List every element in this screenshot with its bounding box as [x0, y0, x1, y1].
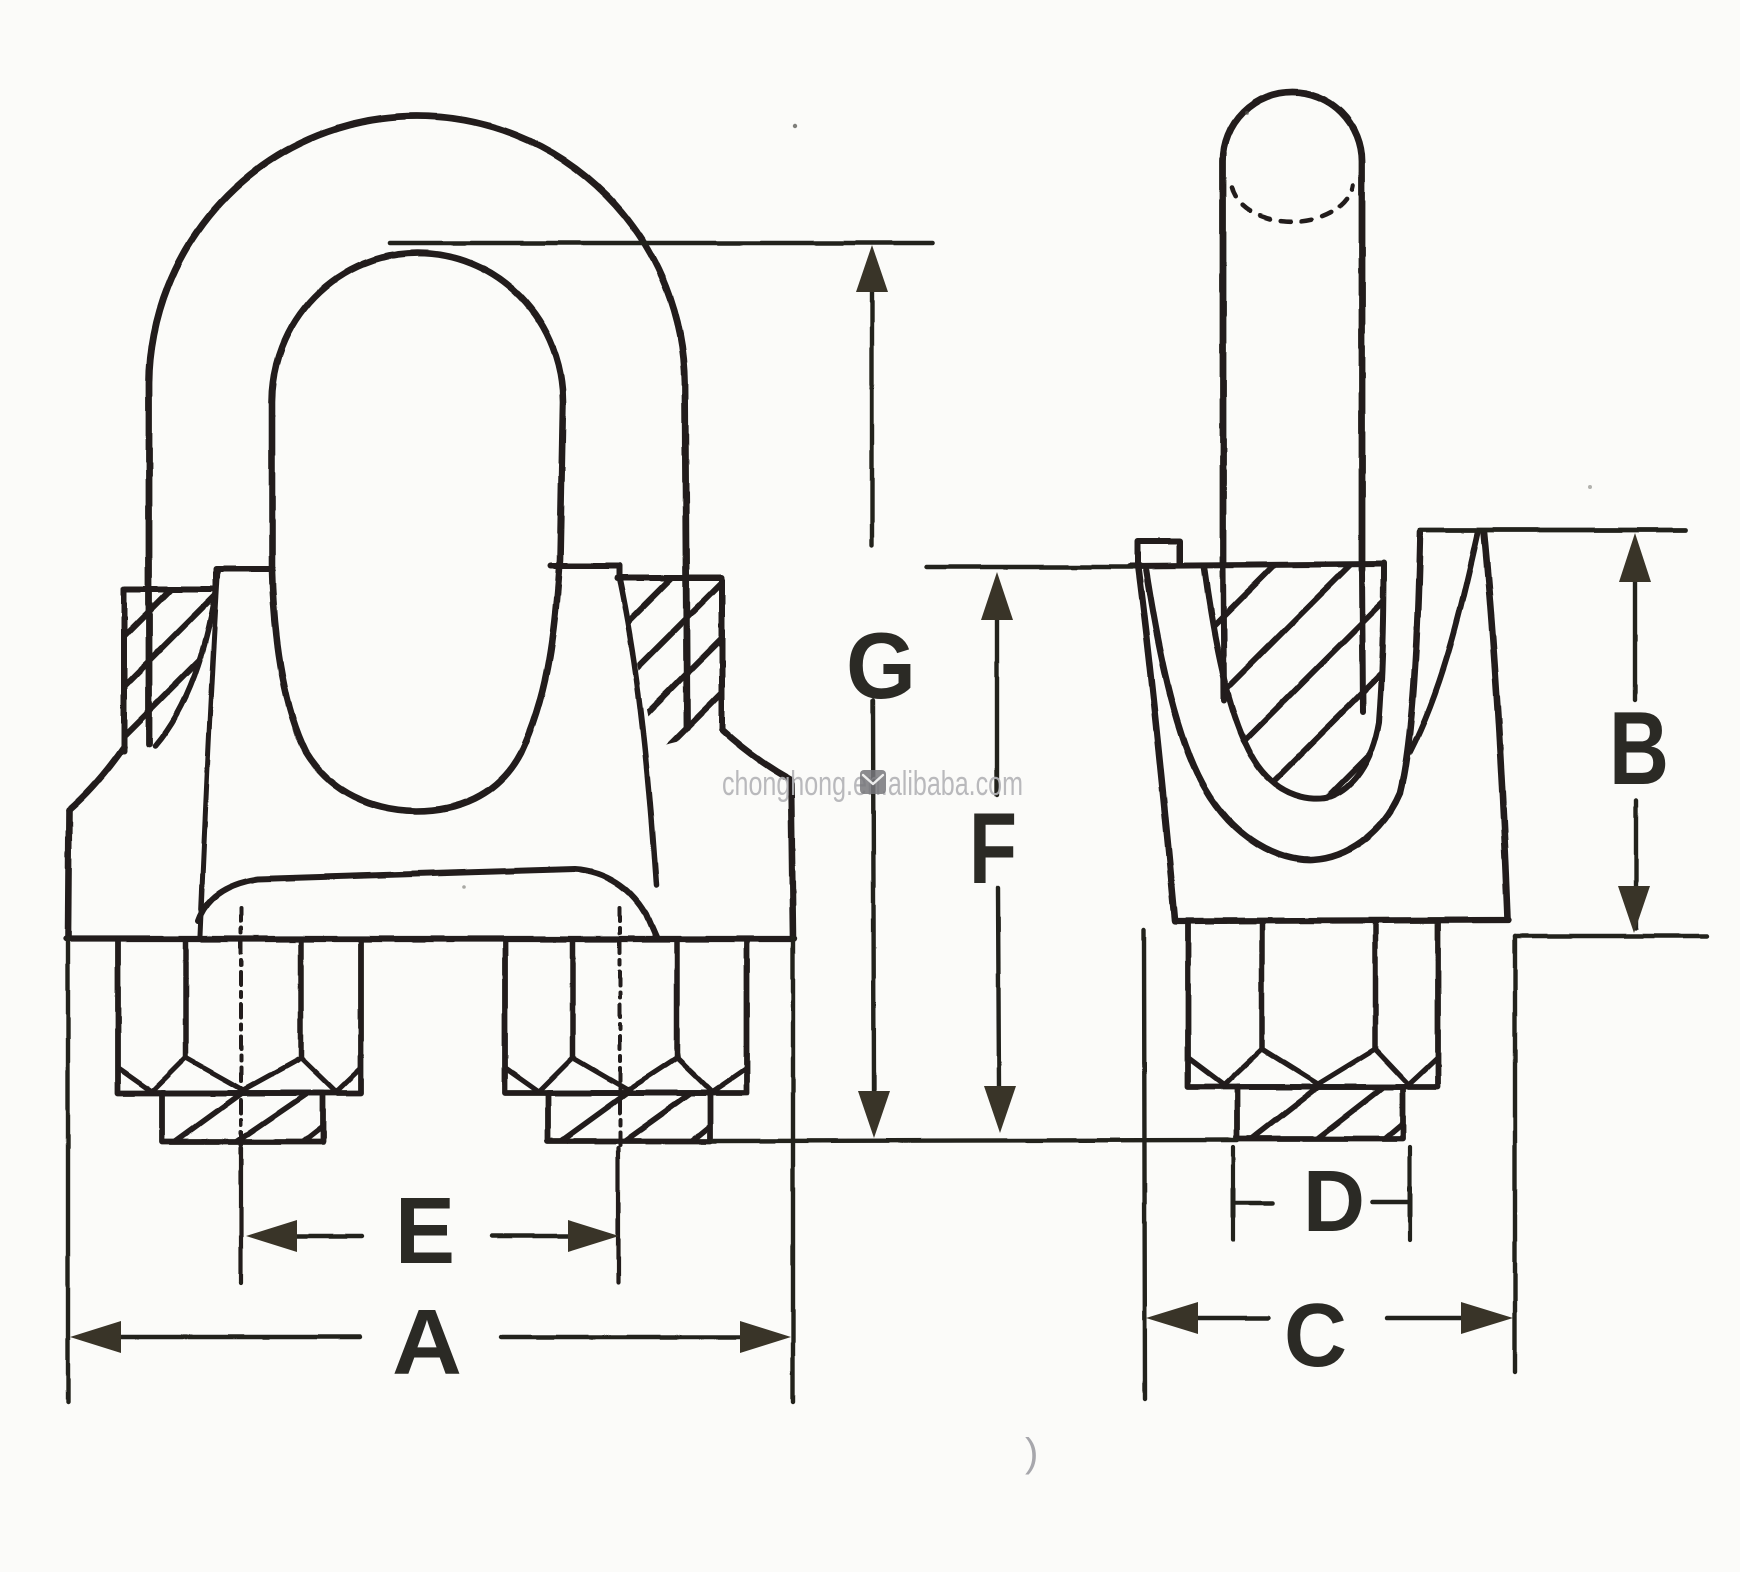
left nut chamfers: [118, 1058, 186, 1092]
arrowheads: [70, 245, 1651, 1353]
C arrows: [1146, 1302, 1198, 1334]
B dimension line: [1633, 581, 1637, 700]
left nut facets: [183, 941, 189, 1058]
B bottom extension line: [1515, 934, 1707, 938]
left body side: [68, 810, 69, 938]
side nut outline: [1188, 921, 1438, 1087]
E arrows: [246, 1220, 297, 1252]
left ear fillet curve: [155, 591, 216, 746]
bolt centerline left (dashed): [239, 908, 243, 1148]
right shoulder curve: [722, 730, 791, 780]
B top extension line: [1420, 528, 1686, 533]
channel hatch: [1180, 540, 1460, 845]
right nut facets: [570, 941, 576, 1058]
A extension lines: [66, 938, 70, 1402]
A dimension line: [118, 1335, 360, 1339]
right body side: [791, 780, 793, 938]
side nut chamfers: [1188, 1049, 1262, 1085]
saddle bottom: [1175, 920, 1509, 921]
U-bolt outer arch: [149, 116, 687, 744]
C right extension line: [1513, 936, 1517, 1372]
right washer: [548, 1093, 710, 1141]
E extension lines: [239, 1281, 243, 1285]
D extension lines: [1231, 1147, 1235, 1240]
back ear inner face line: [1410, 533, 1478, 752]
rod edges inside channel: [1223, 565, 1224, 700]
G arrows: [856, 245, 888, 292]
E dimension line: [295, 1234, 362, 1238]
left ear hatched box edges: [124, 589, 216, 751]
saddle top edge: [1130, 564, 1384, 566]
C left extension line: [1144, 930, 1145, 1399]
svg-text:G: G: [846, 613, 916, 718]
svg-text:C: C: [1284, 1286, 1347, 1386]
A arrows: [70, 1321, 121, 1353]
C dimension line: [1196, 1316, 1268, 1320]
right nut chamfers: [505, 1058, 573, 1092]
bottom extension line (G,F): [711, 1140, 1237, 1141]
svg-text:A: A: [392, 1290, 462, 1394]
svg-text:): ): [1025, 1431, 1038, 1475]
baseline: [66, 936, 794, 942]
F dimension line: [995, 618, 999, 795]
svg-text:B: B: [1609, 691, 1669, 807]
B arrows: [1619, 533, 1651, 582]
saddle right edge: [1484, 532, 1508, 919]
right tab: [551, 566, 619, 578]
right nut outline: [505, 940, 747, 1093]
right ear hatch lines: [510, 570, 780, 880]
watermark messenger icon: [860, 770, 886, 794]
bolt centerline right (dashed): [618, 908, 622, 1148]
right ear inner profile curve: [619, 578, 656, 886]
G dimension line: [870, 289, 874, 545]
G top extension line: [390, 241, 933, 246]
side nut facets: [1259, 922, 1265, 1049]
D dimension line with ticks: [1233, 1201, 1272, 1206]
left nut outline: [118, 940, 361, 1093]
steep inner profile line (left): [200, 569, 218, 936]
svg-text:E: E: [395, 1178, 455, 1284]
hidden circle dashed arc: [1232, 185, 1353, 222]
left tab: [216, 569, 273, 592]
left tab: [1138, 541, 1180, 566]
F arrows: [981, 572, 1013, 620]
saddle left edge: [1138, 568, 1175, 920]
left ear hatch lines: [20, 570, 280, 875]
svg-text:D: D: [1303, 1153, 1365, 1250]
left washer: [162, 1093, 323, 1142]
side washer: [1237, 1087, 1403, 1139]
left shoulder curve: [69, 747, 124, 810]
inner U channel: [1204, 563, 1384, 799]
faint specks: [793, 124, 797, 128]
bottom arc of saddle face: [198, 869, 656, 937]
rod / wire rope stud: [1223, 92, 1362, 570]
U-bolt inner opening (teardrop capsule): [272, 253, 563, 811]
svg-text:F: F: [969, 793, 1017, 905]
right ear hatched box edges: [617, 578, 722, 730]
outer U channel: [1146, 531, 1420, 860]
F top extension line: [926, 565, 1132, 569]
